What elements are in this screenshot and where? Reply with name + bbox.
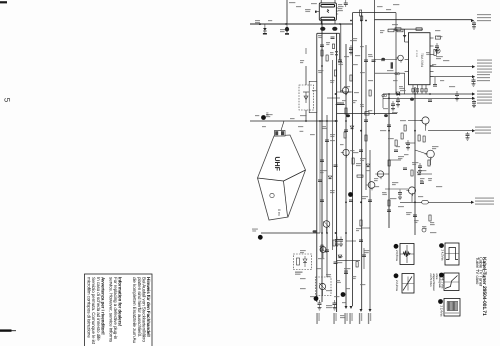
svg-text:2 0,5Vss: 2 0,5Vss (395, 250, 399, 261)
svg-text:5: 5 (3, 98, 12, 103)
svg-text:2 Vss: 2 Vss (441, 274, 445, 281)
svg-text:TDA 5331: TDA 5331 (420, 53, 424, 67)
svg-text:2 2,4Vss: 2 2,4Vss (439, 306, 443, 317)
svg-text:100: 100 (266, 112, 269, 117)
svg-text:IC 101: IC 101 (415, 50, 418, 58)
svg-text:service. However, service info: service. However, service informs (108, 277, 113, 343)
svg-text:2 4,2Vss: 2 4,2Vss (440, 250, 444, 261)
svg-text:microfilm corrispos di istruzi: microfilm corrispos di istruzione (87, 277, 92, 338)
svg-text:die kompletten Ersatzteile zum: die kompletten Ersatzteile zum Au (132, 277, 137, 343)
svg-text:0 nv: 0 nv (277, 209, 281, 216)
svg-text:2 2,2Vss: 2 2,2Vss (395, 280, 399, 291)
svg-text:UHF: UHF (273, 157, 280, 172)
svg-text:Tuner TV cavo: Tuner TV cavo (475, 257, 480, 285)
